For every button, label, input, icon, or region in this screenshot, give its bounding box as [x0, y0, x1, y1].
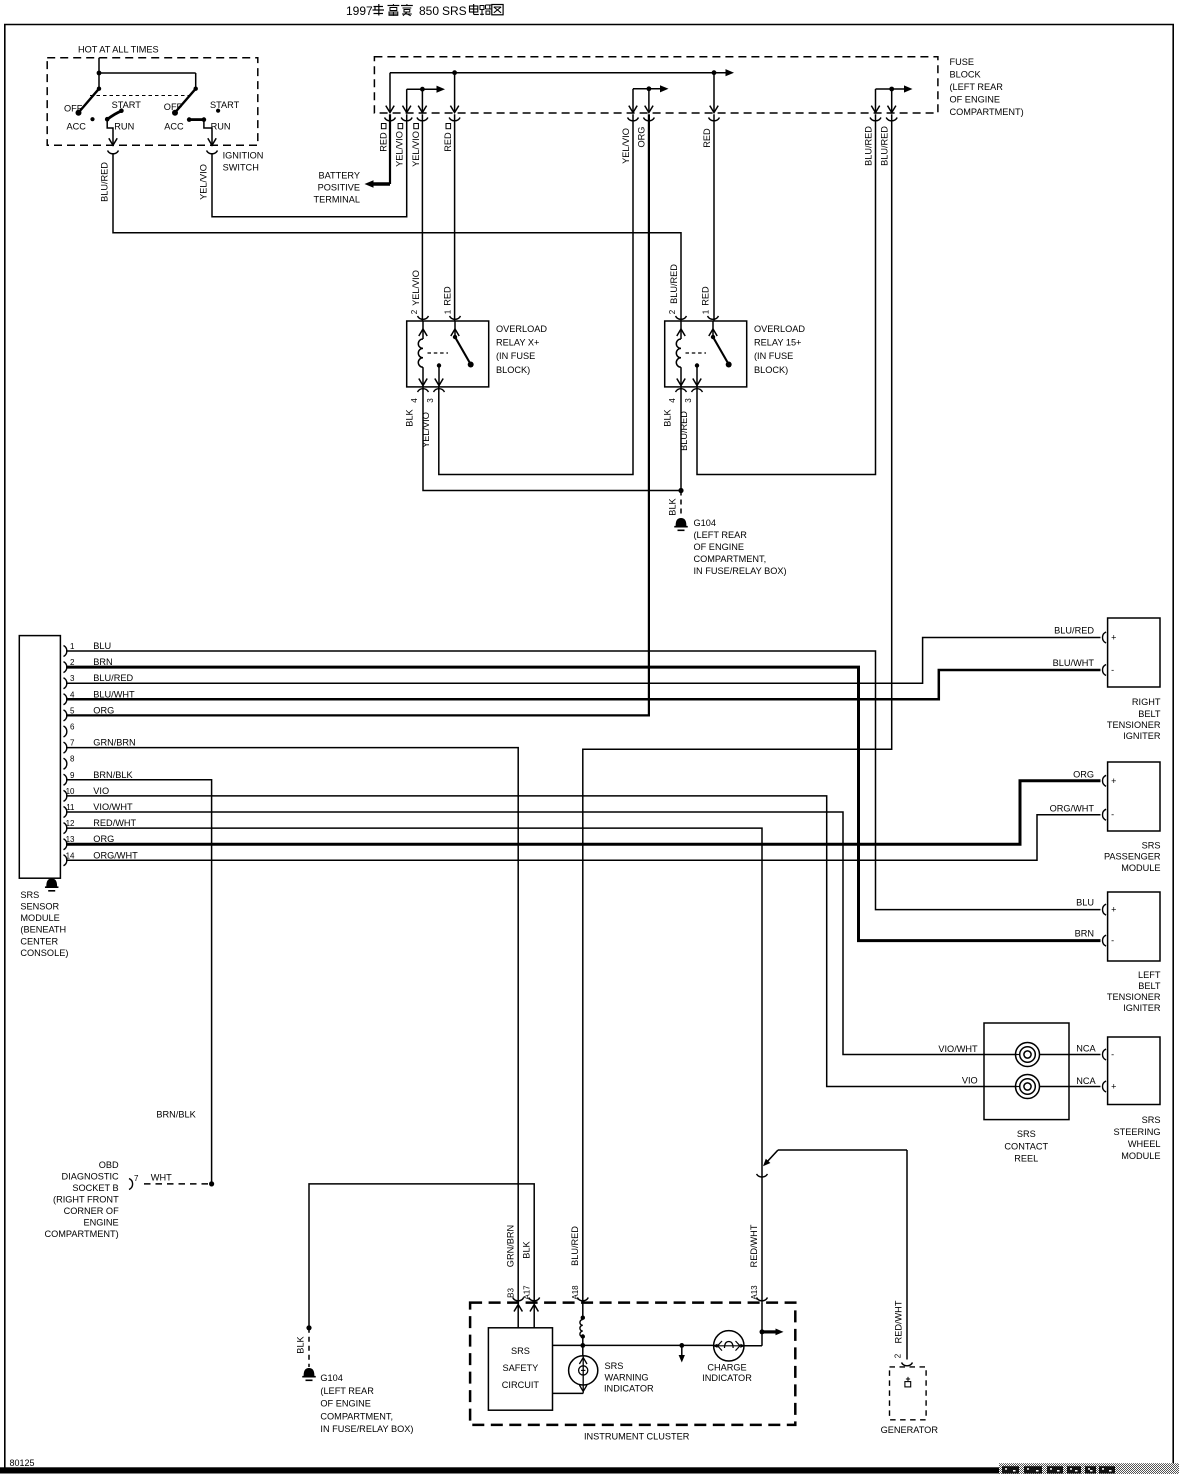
svg-text:BLK: BLK	[296, 1335, 306, 1353]
svg-text:6: 6	[70, 723, 75, 732]
svg-text:11: 11	[66, 803, 75, 812]
svg-text:SRS: SRS	[511, 1346, 530, 1356]
svg-text:REEL: REEL	[1014, 1154, 1038, 1164]
svg-text:START: START	[112, 100, 142, 110]
svg-text:BLK: BLK	[405, 408, 415, 426]
svg-text:GRN/BRN: GRN/BRN	[506, 1225, 516, 1267]
svg-text:BLU/WHT: BLU/WHT	[1053, 658, 1095, 668]
svg-text:RUN: RUN	[114, 121, 134, 131]
svg-text:IGNITER: IGNITER	[1123, 731, 1161, 741]
svg-text:BLK: BLK	[522, 1240, 532, 1258]
svg-text:IGNITION: IGNITION	[223, 151, 264, 161]
svg-text:VIO/WHT: VIO/WHT	[938, 1044, 978, 1054]
svg-text:7: 7	[70, 739, 75, 748]
svg-text:CONTACT: CONTACT	[1004, 1141, 1048, 1151]
svg-text:4: 4	[668, 398, 677, 403]
svg-text:CHARGE: CHARGE	[707, 1362, 746, 1372]
svg-text:3: 3	[70, 674, 75, 683]
svg-text:850: 850	[419, 4, 439, 18]
svg-text:CENTER: CENTER	[20, 936, 58, 946]
svg-text:5: 5	[70, 706, 75, 715]
svg-text:-: -	[1111, 810, 1114, 820]
svg-text:1997: 1997	[346, 4, 373, 18]
svg-text:SRS: SRS	[442, 4, 467, 18]
svg-text:RUN: RUN	[211, 121, 231, 131]
svg-text:OVERLOAD: OVERLOAD	[754, 324, 805, 334]
svg-text:SOCKET B: SOCKET B	[72, 1183, 118, 1193]
svg-text:STEERING: STEERING	[1114, 1127, 1161, 1137]
svg-text:IGNITER: IGNITER	[1123, 1003, 1161, 1013]
svg-text:(LEFT REAR: (LEFT REAR	[320, 1386, 374, 1396]
svg-text:RED/WHT: RED/WHT	[749, 1224, 759, 1267]
svg-text:COMPARTMENT,: COMPARTMENT,	[694, 554, 767, 564]
svg-text:BLOCK: BLOCK	[950, 70, 982, 80]
svg-text:COMPARTMENT): COMPARTMENT)	[45, 1229, 119, 1239]
svg-text:ACC: ACC	[67, 121, 87, 131]
svg-text:BLU/RED: BLU/RED	[99, 162, 109, 202]
svg-text:ORG/WHT: ORG/WHT	[1050, 804, 1095, 814]
svg-text:CIRCUIT: CIRCUIT	[502, 1380, 540, 1390]
svg-text:INDICATOR: INDICATOR	[604, 1383, 654, 1393]
svg-text:(LEFT REAR: (LEFT REAR	[950, 82, 1004, 92]
svg-text:-: -	[1111, 1050, 1114, 1060]
svg-text:COMPARTMENT,: COMPARTMENT,	[320, 1411, 393, 1421]
svg-text:YEL/VIO: YEL/VIO	[395, 131, 405, 167]
svg-text:RED: RED	[379, 132, 389, 152]
svg-text:YEL/VIO: YEL/VIO	[198, 164, 208, 200]
svg-text:8: 8	[70, 755, 75, 764]
svg-text:RELAY 15+: RELAY 15+	[754, 338, 801, 348]
svg-text:(LEFT REAR: (LEFT REAR	[694, 530, 748, 540]
svg-text:4: 4	[70, 690, 75, 699]
svg-text:RED: RED	[443, 132, 453, 152]
svg-text:(BENEATH: (BENEATH	[20, 925, 66, 935]
svg-text:GENERATOR: GENERATOR	[881, 1425, 939, 1435]
svg-text:DIAGNOSTIC: DIAGNOSTIC	[62, 1172, 120, 1182]
svg-text:GRN/BRN: GRN/BRN	[93, 738, 135, 748]
svg-text:OBD: OBD	[99, 1160, 119, 1170]
svg-text:IN FUSE/RELAY BOX): IN FUSE/RELAY BOX)	[320, 1424, 413, 1434]
svg-text:WHT: WHT	[151, 1173, 172, 1183]
svg-text:BLU/WHT: BLU/WHT	[93, 689, 135, 699]
svg-text:SWITCH: SWITCH	[223, 163, 259, 173]
svg-text:OF ENGINE: OF ENGINE	[320, 1399, 371, 1409]
svg-text:BLU: BLU	[93, 641, 111, 651]
svg-text:POSITIVE: POSITIVE	[318, 183, 360, 193]
svg-text:VIO: VIO	[962, 1076, 978, 1086]
svg-text:START: START	[210, 100, 240, 110]
svg-text:A18: A18	[571, 1285, 580, 1300]
svg-text:RELAY X+: RELAY X+	[496, 338, 539, 348]
svg-text:+: +	[1111, 776, 1116, 786]
svg-text:1: 1	[444, 309, 453, 314]
svg-text:-: -	[1111, 665, 1114, 675]
svg-text:BELT: BELT	[1138, 981, 1161, 991]
svg-text:ORG/WHT: ORG/WHT	[93, 850, 138, 860]
svg-text:INSTRUMENT CLUSTER: INSTRUMENT CLUSTER	[584, 1432, 690, 1442]
svg-text:A13: A13	[750, 1285, 759, 1300]
svg-text:VIO/WHT: VIO/WHT	[93, 802, 133, 812]
svg-text:BLOCK): BLOCK)	[496, 365, 530, 375]
svg-text:FUSE: FUSE	[950, 57, 975, 67]
svg-text:OF ENGINE: OF ENGINE	[950, 95, 1001, 105]
svg-text:A17: A17	[523, 1285, 532, 1300]
svg-text:CORNER OF: CORNER OF	[64, 1206, 120, 1216]
svg-text:ACC: ACC	[164, 121, 184, 131]
svg-text:CONSOLE): CONSOLE)	[20, 948, 68, 958]
svg-text:BLU/RED: BLU/RED	[863, 126, 873, 166]
svg-text:2: 2	[668, 309, 677, 314]
svg-text:BELT: BELT	[1138, 709, 1161, 719]
svg-text:BLU/RED: BLU/RED	[93, 673, 133, 683]
svg-text:RED: RED	[702, 128, 712, 148]
svg-text:14: 14	[66, 851, 75, 860]
svg-text:BRN/BLK: BRN/BLK	[156, 1110, 196, 1120]
svg-text:YEL/VIO: YEL/VIO	[411, 270, 421, 306]
svg-text:80125: 80125	[10, 1458, 35, 1468]
svg-text:SRS: SRS	[605, 1361, 624, 1371]
svg-text:BLU/RED: BLU/RED	[669, 264, 679, 304]
svg-text:TENSIONER: TENSIONER	[1107, 992, 1161, 1002]
svg-text:RED/WHT: RED/WHT	[93, 818, 136, 828]
svg-text:(RIGHT FRONT: (RIGHT FRONT	[53, 1195, 119, 1205]
svg-text:SRS: SRS	[1017, 1129, 1036, 1139]
svg-text:TENSIONER: TENSIONER	[1107, 720, 1161, 730]
svg-text:+: +	[1111, 633, 1116, 643]
svg-text:3: 3	[684, 398, 693, 403]
svg-text:SRS: SRS	[1142, 841, 1161, 851]
svg-text:BLK: BLK	[667, 497, 677, 515]
svg-text:(IN FUSE: (IN FUSE	[754, 351, 793, 361]
svg-text:BLU/RED: BLU/RED	[570, 1226, 580, 1266]
svg-text:WARNING: WARNING	[605, 1372, 649, 1382]
svg-text:BLU/RED: BLU/RED	[879, 126, 889, 166]
svg-text:PASSENGER: PASSENGER	[1104, 852, 1161, 862]
svg-text:(IN FUSE: (IN FUSE	[496, 351, 535, 361]
svg-text:12: 12	[66, 819, 75, 828]
svg-text:NCA: NCA	[1076, 1044, 1096, 1054]
svg-text:G104: G104	[694, 518, 716, 528]
svg-text:RED/WHT: RED/WHT	[894, 1300, 904, 1343]
svg-text:SRS: SRS	[20, 890, 39, 900]
svg-text:YEL/VIO: YEL/VIO	[621, 128, 631, 164]
svg-text:ORG: ORG	[637, 127, 647, 148]
svg-text:1: 1	[70, 642, 75, 651]
svg-text:MODULE: MODULE	[20, 913, 59, 923]
svg-text:BRN/BLK: BRN/BLK	[93, 770, 133, 780]
svg-text:COMPARTMENT): COMPARTMENT)	[950, 107, 1024, 117]
svg-text:SRS: SRS	[1142, 1115, 1161, 1125]
svg-text:BLOCK): BLOCK)	[754, 365, 788, 375]
svg-text:RED: RED	[443, 286, 453, 306]
svg-text:VIO: VIO	[93, 786, 109, 796]
svg-text:HOT AT ALL TIMES: HOT AT ALL TIMES	[78, 45, 159, 55]
svg-text:OFF: OFF	[64, 104, 83, 114]
svg-text:WHEEL: WHEEL	[1128, 1139, 1161, 1149]
svg-text:3: 3	[426, 398, 435, 403]
svg-text:BRN: BRN	[1075, 929, 1094, 939]
svg-text:MODULE: MODULE	[1121, 1151, 1160, 1161]
svg-text:G104: G104	[320, 1373, 342, 1383]
svg-text:BATTERY: BATTERY	[318, 171, 360, 181]
svg-text:TERMINAL: TERMINAL	[314, 195, 360, 205]
svg-text:2: 2	[894, 1353, 903, 1358]
svg-text:IN FUSE/RELAY BOX): IN FUSE/RELAY BOX)	[694, 566, 787, 576]
svg-text:1: 1	[702, 309, 711, 314]
svg-text:2: 2	[410, 309, 419, 314]
svg-text:-: -	[1111, 936, 1114, 946]
svg-text:INDICATOR: INDICATOR	[702, 1373, 752, 1383]
svg-text:BLK: BLK	[663, 408, 673, 426]
svg-text:9: 9	[70, 771, 75, 780]
svg-text:YEL/VIO: YEL/VIO	[411, 131, 421, 167]
svg-text:RED: RED	[701, 286, 711, 306]
svg-text:OVERLOAD: OVERLOAD	[496, 324, 547, 334]
svg-text:OFF: OFF	[164, 102, 183, 112]
svg-text:10: 10	[66, 787, 75, 796]
svg-text:RIGHT: RIGHT	[1132, 697, 1161, 707]
svg-text:ENGINE: ENGINE	[83, 1218, 118, 1228]
svg-text:+: +	[1111, 905, 1116, 915]
svg-text:B3: B3	[507, 1288, 516, 1298]
svg-text:ORG: ORG	[93, 705, 114, 715]
svg-text:+: +	[1111, 1082, 1116, 1092]
svg-text:MODULE: MODULE	[1121, 863, 1160, 873]
svg-text:4: 4	[410, 398, 419, 403]
svg-text:OF ENGINE: OF ENGINE	[694, 542, 745, 552]
svg-text:LEFT: LEFT	[1138, 970, 1161, 980]
svg-text:BLU/RED: BLU/RED	[1054, 626, 1094, 636]
svg-text:BLU: BLU	[1076, 898, 1094, 908]
svg-text:SENSOR: SENSOR	[20, 902, 59, 912]
svg-text:NCA: NCA	[1076, 1076, 1096, 1086]
svg-text:ORG: ORG	[1073, 770, 1094, 780]
svg-text:SAFETY: SAFETY	[503, 1363, 539, 1373]
svg-text:7: 7	[134, 1174, 139, 1183]
